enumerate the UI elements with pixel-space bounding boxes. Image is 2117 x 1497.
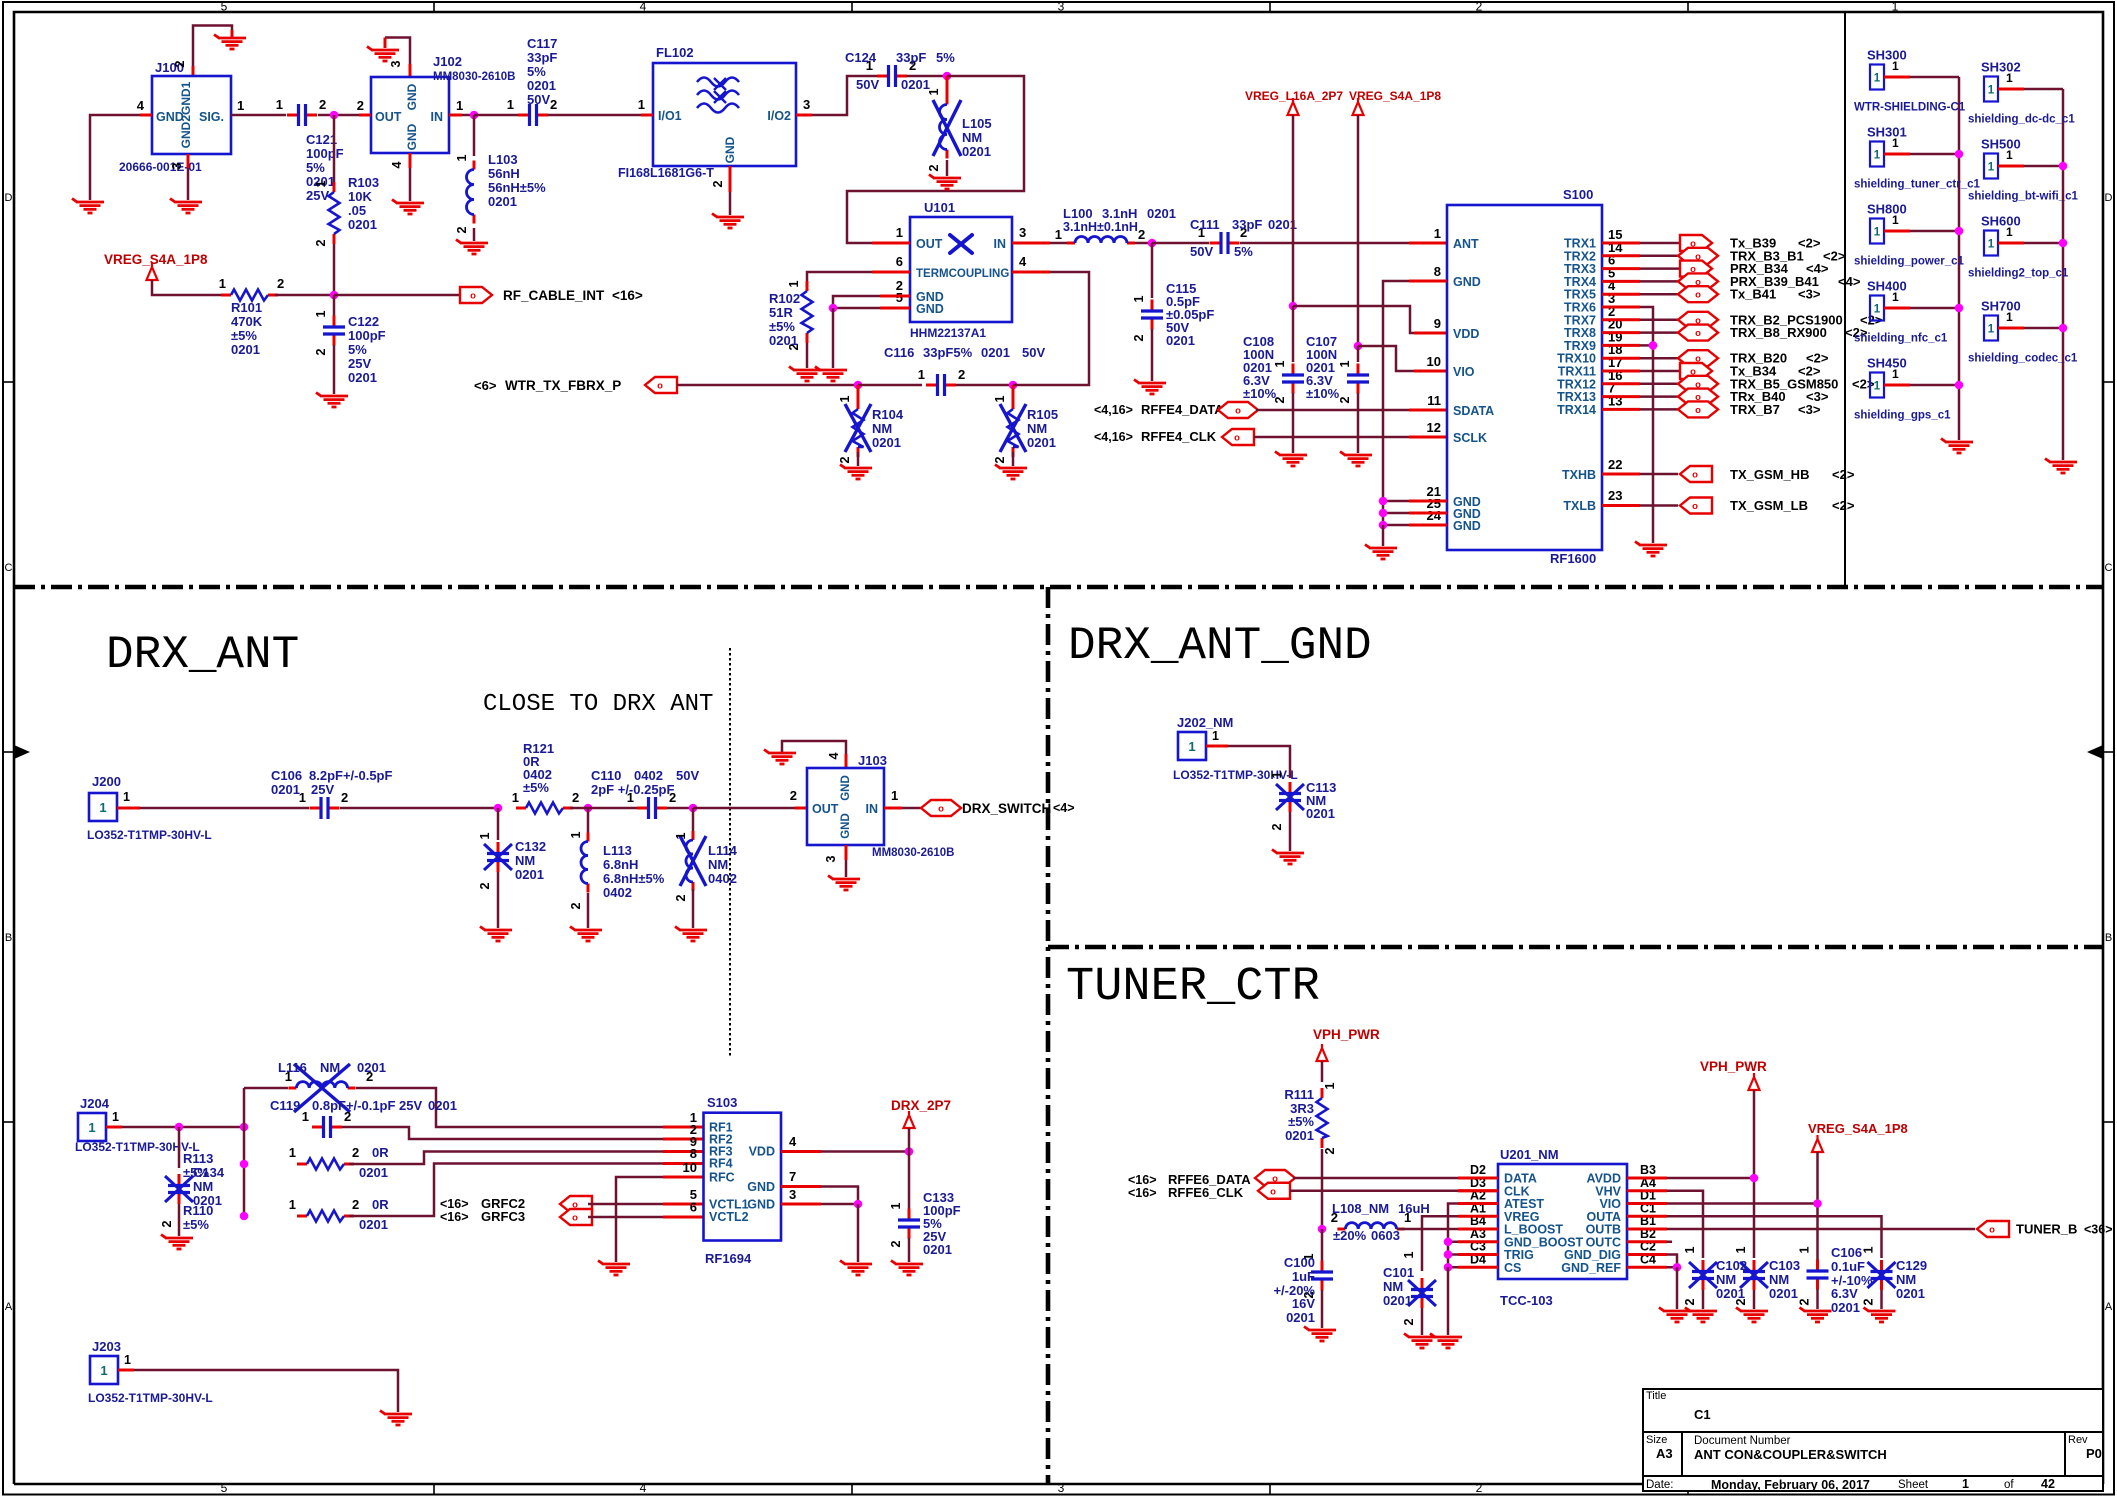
svg-text:1: 1 <box>1892 213 1899 227</box>
wire S103 GND7 to node <box>781 1185 821 1188</box>
svg-text:J102: J102 <box>433 54 462 69</box>
svg-text:C1: C1 <box>1694 1407 1711 1422</box>
svg-text:RFFE4_DATA: RFFE4_DATA <box>1141 402 1224 417</box>
svg-text:3: 3 <box>803 97 810 112</box>
wire C110 to node <box>667 807 693 810</box>
wire node to C111 <box>1152 242 1209 245</box>
svg-text:IN: IN <box>431 110 444 124</box>
wire VPH_PWR to AVDD node <box>1753 1090 1756 1258</box>
off-page connector Tx_B34 <box>1680 363 1712 379</box>
svg-text:NM: NM <box>1769 1272 1789 1287</box>
svg-text:1: 1 <box>1338 360 1352 367</box>
inductor L116 (NM) <box>288 1087 296 1090</box>
wire WTR bus <box>677 384 858 387</box>
svg-text:6: 6 <box>896 254 903 269</box>
svg-text:50V: 50V <box>676 768 699 783</box>
wire C108 branch <box>1292 306 1295 362</box>
svg-text:±5%: ±5% <box>231 328 257 343</box>
U101 OUT stub <box>872 242 910 245</box>
svg-text:1: 1 <box>1874 381 1881 393</box>
svg-text:0201: 0201 <box>1769 1286 1798 1301</box>
svg-text:0201: 0201 <box>231 342 260 357</box>
ground (L114) <box>675 927 707 942</box>
junction node C108/VDD <box>1289 302 1298 311</box>
wire TRX1 to connector <box>1602 242 1640 245</box>
junction node J102/L103/C117 <box>470 111 479 120</box>
connector J102 <box>371 77 449 153</box>
J102 pin2 stub <box>359 114 371 117</box>
FL102 pin1 stub <box>641 114 653 117</box>
wire VREG to R101 <box>152 280 222 295</box>
wire TRX12 to connector <box>1602 382 1640 385</box>
wire node to VDD pin <box>1293 306 1414 333</box>
ground (J203) <box>380 1411 412 1426</box>
wire SH302 to bus <box>1998 88 2024 91</box>
connector J204 <box>78 1113 106 1141</box>
svg-text:2: 2 <box>1683 1298 1697 1305</box>
U101 coupler glyph <box>950 235 972 253</box>
svg-text:VPH_PWR: VPH_PWR <box>1700 1059 1767 1074</box>
junction TRX9 bus <box>1649 341 1658 350</box>
svg-text:2: 2 <box>1798 1298 1812 1305</box>
wire OUTB to TUNER_B <box>1667 1228 1975 1231</box>
svg-text:0603: 0603 <box>1371 1228 1400 1243</box>
ground (C113) <box>1272 850 1304 865</box>
coupler U101 <box>910 217 1012 322</box>
capacitor C102 (NM) <box>1702 1260 1705 1271</box>
wire C107 to ground <box>1357 393 1360 453</box>
title block <box>1643 1389 2103 1491</box>
wire J204 to bus <box>106 1126 122 1129</box>
wire node to C117 <box>474 114 518 117</box>
ground (C103) <box>1736 1308 1768 1323</box>
wire J200 to C106 <box>117 807 140 810</box>
svg-text:1: 1 <box>838 395 852 402</box>
svg-text:±10%: ±10% <box>1306 386 1340 401</box>
svg-text:5%: 5% <box>306 160 325 175</box>
wire TRX8 to connector <box>1602 331 1640 334</box>
svg-text:4: 4 <box>137 98 145 113</box>
svg-text:1: 1 <box>1892 0 1899 14</box>
off-page connector TRX_B5_GSM850 <box>1678 376 1718 392</box>
ground (L103) <box>456 240 488 255</box>
svg-text:2: 2 <box>711 180 725 187</box>
inductor L113 <box>587 833 590 842</box>
svg-text:Sheet: Sheet <box>1898 1479 1929 1491</box>
wire AVDD to node <box>1667 1177 1754 1180</box>
svg-text:56nH±5%: 56nH±5% <box>488 180 546 195</box>
svg-text:0201: 0201 <box>962 144 991 159</box>
svg-text:2: 2 <box>838 456 852 463</box>
wire GRFC2 to VCTL1 <box>588 1203 663 1206</box>
junction SH500 <box>2059 162 2068 171</box>
svg-text:2: 2 <box>1402 1318 1416 1325</box>
svg-text:5: 5 <box>221 0 228 14</box>
svg-text:TERMCOUPLING: TERMCOUPLING <box>916 268 1009 280</box>
svg-text:2: 2 <box>1270 823 1284 830</box>
S100 GND24 wire <box>1409 524 1447 527</box>
svg-text:C103: C103 <box>1769 1258 1800 1273</box>
wire J100 pin4 to ground <box>140 114 152 117</box>
svg-text:TUNER_CTR: TUNER_CTR <box>1066 961 1320 1014</box>
svg-text:o: o <box>1235 406 1241 417</box>
svg-text:I/O1: I/O1 <box>658 109 682 123</box>
wire R105 to ground <box>1012 452 1015 466</box>
junction SH600 <box>2059 239 2068 248</box>
svg-text:2: 2 <box>1476 0 1483 14</box>
svg-text:5%: 5% <box>527 64 546 79</box>
off-page connector TX_GSM_LB <box>1680 498 1712 514</box>
svg-text:0201: 0201 <box>1285 1128 1314 1143</box>
svg-text:3: 3 <box>824 855 838 862</box>
ground (U201 control) <box>1430 1334 1462 1349</box>
wire VDD to node <box>781 1150 821 1153</box>
svg-text:<16>: <16> <box>1128 1186 1157 1200</box>
capacitor C133 <box>908 1209 911 1220</box>
svg-text:16uH: 16uH <box>1398 1201 1430 1216</box>
svg-text:2: 2 <box>674 894 688 901</box>
junction AVDD/VPH_PWR <box>1750 1174 1759 1183</box>
wire R113 to RF3 <box>349 1152 663 1165</box>
svg-text:LO352-T1TMP-30HV-L: LO352-T1TMP-30HV-L <box>87 828 212 842</box>
wire J100 pin2 to ground <box>193 26 232 67</box>
svg-text:Tx_B41: Tx_B41 <box>1730 287 1776 302</box>
connector SH600 <box>1984 231 1998 256</box>
wire R104 to ground <box>857 452 860 466</box>
svg-text:o: o <box>572 1213 578 1224</box>
svg-text:10K: 10K <box>348 189 372 204</box>
svg-text:10: 10 <box>683 1160 697 1175</box>
svg-text:1: 1 <box>276 97 283 112</box>
U201 right stubs <box>1627 1177 1667 1180</box>
svg-text:1: 1 <box>124 1353 131 1367</box>
connector J200 <box>89 793 117 821</box>
svg-text:o: o <box>1695 405 1701 416</box>
svg-text:1: 1 <box>1988 85 1995 97</box>
capacitor C129 (NM) <box>1880 1260 1883 1271</box>
svg-text:1: 1 <box>993 395 1007 402</box>
svg-text:1: 1 <box>237 98 244 113</box>
svg-text:L116: L116 <box>278 1060 307 1075</box>
wire J100 pin1 to C121 <box>231 114 286 117</box>
ground (J103 pin4) <box>764 750 796 765</box>
resistor R110 <box>297 1215 307 1218</box>
svg-text:TRX_B8_RX900: TRX_B8_RX900 <box>1730 325 1827 340</box>
off-page connector Tx_B41 <box>1678 286 1718 302</box>
svg-text:ANT: ANT <box>1453 237 1479 251</box>
frame column ticks <box>433 2 435 12</box>
svg-text:B: B <box>5 932 12 944</box>
wire J203 to ground <box>118 1369 134 1372</box>
ground (FL102 pin2) <box>712 214 744 229</box>
svg-text:5: 5 <box>221 1481 228 1495</box>
svg-text:50V: 50V <box>1190 244 1213 259</box>
svg-text:0201: 0201 <box>348 217 377 232</box>
svg-text:R111: R111 <box>1284 1087 1314 1102</box>
wire L103 to ground <box>473 228 476 241</box>
wire RFFE4_CLK to SCLK <box>1254 436 1409 439</box>
junction SH800 <box>1955 227 1964 236</box>
svg-text:SH800: SH800 <box>1867 202 1907 217</box>
wire SH400 to bus <box>1884 307 1910 310</box>
svg-text:0201: 0201 <box>1166 333 1195 348</box>
wire L100 to node <box>1135 242 1152 245</box>
wire SH500 to bus <box>1998 165 2024 168</box>
junction GND24 <box>1379 521 1388 530</box>
connector SH450 <box>1870 373 1884 398</box>
svg-text:C106: C106 <box>271 768 302 783</box>
wire R105 branch <box>1012 385 1015 402</box>
svg-text:0201: 0201 <box>1306 806 1335 821</box>
wire ground bus down <box>1447 1267 1450 1335</box>
junction node C107/VIO <box>1354 342 1363 351</box>
svg-text:NM: NM <box>1027 421 1047 436</box>
svg-text:DRX_2P7: DRX_2P7 <box>891 1098 951 1113</box>
svg-text:Date:: Date: <box>1646 1479 1674 1491</box>
svg-text:±5%: ±5% <box>523 780 549 795</box>
resistor R105 (NM) <box>1012 399 1015 409</box>
svg-text:C102: C102 <box>1716 1258 1747 1273</box>
svg-text:51R: 51R <box>769 305 793 320</box>
resistor R121 <box>516 807 526 810</box>
wire C129 to ground <box>1880 1290 1883 1309</box>
junction S103 GND <box>854 1200 863 1209</box>
svg-text:±5%: ±5% <box>183 1217 209 1232</box>
ground (R102) <box>789 367 821 382</box>
svg-text:3.1nH±0.1nH: 3.1nH±0.1nH <box>1063 220 1138 234</box>
capacitor C103 (NM) <box>1753 1260 1756 1271</box>
resistor R102 <box>806 281 809 291</box>
svg-text:1: 1 <box>638 97 645 112</box>
svg-text:C122: C122 <box>348 314 379 329</box>
inductor L103 <box>473 161 476 170</box>
svg-text:o: o <box>938 804 944 815</box>
svg-text:1: 1 <box>889 1202 903 1209</box>
svg-text:<3>: <3> <box>1798 287 1821 302</box>
svg-text:1: 1 <box>1862 1246 1876 1253</box>
junction SH450 <box>1955 381 1964 390</box>
off-page connector TRX_B20 <box>1678 350 1718 366</box>
svg-text:7: 7 <box>789 1169 796 1184</box>
svg-text:RF4: RF4 <box>709 1157 733 1171</box>
svg-text:470K: 470K <box>231 314 263 329</box>
svg-text:Size: Size <box>1646 1434 1667 1446</box>
svg-text:1: 1 <box>1874 150 1881 162</box>
wire L113 branch <box>587 808 590 833</box>
svg-text:IN: IN <box>994 237 1007 251</box>
svg-text:<2>: <2> <box>1832 498 1855 513</box>
svg-text:2: 2 <box>1862 1298 1876 1305</box>
svg-text:25V: 25V <box>306 188 329 203</box>
wire U101 IN to L100 <box>1012 242 1050 245</box>
wire C133 to ground <box>908 1238 911 1262</box>
wire SH300 to bus <box>1884 76 1910 79</box>
off-page connector TRx_B40 <box>1678 389 1718 405</box>
ground (shield bus 1) <box>1941 439 1973 454</box>
svg-text:1: 1 <box>456 98 463 113</box>
svg-text:B: B <box>2105 932 2112 944</box>
svg-text:C121: C121 <box>306 132 337 147</box>
svg-text:3: 3 <box>1058 1481 1065 1495</box>
off-page connector TRX_B7 <box>1678 401 1718 417</box>
wire J202 to C113 <box>1206 745 1228 748</box>
wire VIO to node <box>1667 1202 1818 1205</box>
svg-text:C101: C101 <box>1383 1265 1414 1280</box>
svg-text:1: 1 <box>289 1197 296 1212</box>
wire C107 branch <box>1357 346 1360 362</box>
svg-text:shielding_tuner_ctr_c1: shielding_tuner_ctr_c1 <box>1854 179 1981 191</box>
wire node to J103 <box>693 807 795 810</box>
svg-text:2: 2 <box>319 97 326 112</box>
svg-text:11: 11 <box>1427 393 1441 408</box>
svg-text:2: 2 <box>173 60 187 67</box>
svg-text:1: 1 <box>1798 1246 1812 1253</box>
svg-text:RF1694: RF1694 <box>705 1251 752 1266</box>
svg-text:4: 4 <box>827 752 841 759</box>
wire GND_REF to ground <box>1676 1267 1679 1309</box>
svg-text:1: 1 <box>1212 729 1219 743</box>
svg-text:0402: 0402 <box>708 871 737 886</box>
svg-text:VREG_S4A_1P8: VREG_S4A_1P8 <box>104 252 208 267</box>
svg-text:C119: C119 <box>270 1098 300 1113</box>
svg-text:33pF5%: 33pF5% <box>923 345 973 360</box>
connector SH500 <box>1984 154 1998 179</box>
ground (C107) <box>1340 452 1372 467</box>
svg-text:3: 3 <box>789 1187 796 1202</box>
svg-text:1: 1 <box>219 276 226 291</box>
svg-text:RF1600: RF1600 <box>1550 551 1596 566</box>
svg-text:<4,16>: <4,16> <box>1094 430 1133 444</box>
svg-text:1: 1 <box>314 180 328 187</box>
svg-text:2: 2 <box>1132 334 1146 341</box>
wire FL102 pin2 to ground <box>729 166 732 192</box>
junction VDD/DRX_2P7 <box>905 1147 914 1156</box>
svg-text:CLOSE TO DRX ANT: CLOSE TO DRX ANT <box>483 691 713 718</box>
svg-text:GND: GND <box>747 1198 775 1212</box>
svg-text:2: 2 <box>160 1220 174 1227</box>
svg-text:1: 1 <box>2006 225 2013 239</box>
junction GND_BOOST <box>1448 1241 1458 1244</box>
svg-text:1: 1 <box>507 97 514 112</box>
svg-text:1: 1 <box>1273 360 1287 367</box>
svg-text:0201: 0201 <box>872 435 901 450</box>
svg-text:2: 2 <box>455 226 469 233</box>
ground (L105) <box>929 175 961 190</box>
wire loop to U101 OUT <box>847 76 1024 243</box>
inductor L114 (NM) <box>692 831 695 840</box>
svg-text:RFFE6_CLK: RFFE6_CLK <box>1168 1185 1244 1200</box>
svg-text:NM: NM <box>1383 1279 1403 1294</box>
capacitor C108 <box>1292 364 1295 375</box>
svg-text:GND: GND <box>405 83 419 110</box>
svg-text:2pF +/-0.25pF: 2pF +/-0.25pF <box>591 782 674 797</box>
svg-text:ANT CON&COUPLER&SWITCH: ANT CON&COUPLER&SWITCH <box>1694 1447 1887 1462</box>
svg-text:SDATA: SDATA <box>1453 404 1494 418</box>
filter FL102 <box>653 63 796 166</box>
wire J103 pin1 to DRX_SWITCH <box>884 807 902 810</box>
svg-text:24: 24 <box>1427 508 1442 523</box>
svg-text:25V: 25V <box>311 782 334 797</box>
svg-text:16V: 16V <box>1292 1296 1315 1311</box>
capacitor C101 (NM) <box>1421 1278 1424 1289</box>
svg-text:4: 4 <box>640 1481 647 1495</box>
svg-text:OUT: OUT <box>375 110 402 124</box>
ground (C129) <box>1864 1308 1896 1323</box>
wire L114 to ground <box>692 889 695 928</box>
switch S103 <box>704 1113 782 1241</box>
junction node R101/C122 <box>330 291 339 300</box>
svg-text:.05: .05 <box>348 203 366 218</box>
svg-text:GRFC3: GRFC3 <box>481 1209 525 1224</box>
wire VREG_L16A to C108 <box>1292 115 1295 306</box>
section divider dash-dot horizontal 2 <box>1048 945 2103 950</box>
svg-text:4: 4 <box>1019 254 1027 269</box>
wire node to C116 <box>858 384 922 387</box>
svg-text:TCC-103: TCC-103 <box>1500 1293 1553 1308</box>
svg-text:9: 9 <box>1434 316 1441 331</box>
wire C115 to ground <box>1151 329 1154 381</box>
wire VREG_S4A to VIO node <box>1816 1152 1819 1261</box>
svg-text:L100: L100 <box>1063 206 1093 221</box>
svg-text:1: 1 <box>314 310 328 317</box>
svg-text:<16>: <16> <box>1128 1173 1157 1187</box>
svg-text:0201: 0201 <box>271 782 300 797</box>
shielding bus 1 <box>1958 77 1961 440</box>
wire C113 to ground <box>1289 812 1292 851</box>
ground (J100 pin4) <box>72 199 104 214</box>
wire node to VIO pin <box>1358 346 1414 371</box>
svg-text:1: 1 <box>569 831 583 838</box>
off-page connector TRX_B8_RX900 <box>1678 325 1718 341</box>
svg-text:0201: 0201 <box>488 194 517 209</box>
svg-text:0201: 0201 <box>1147 206 1176 221</box>
svg-text:1: 1 <box>2006 310 2013 324</box>
svg-text:5%: 5% <box>348 342 367 357</box>
wire U101 GND pins <box>880 295 910 298</box>
svg-text:8.2pF+/-0.5pF: 8.2pF+/-0.5pF <box>309 768 392 783</box>
ground (C115) <box>1134 380 1166 395</box>
svg-text:1: 1 <box>455 154 469 161</box>
wire FL102 pin3 to C124 <box>796 114 812 117</box>
svg-text:FI168L1681G6-T: FI168L1681G6-T <box>618 166 714 180</box>
svg-text:1: 1 <box>1683 1246 1697 1253</box>
wire R110 to RF4 <box>349 1164 663 1217</box>
junction GND_REF <box>1673 1263 1682 1272</box>
junction VIO/VREG_S4A <box>1813 1199 1822 1208</box>
svg-text:1: 1 <box>1892 59 1899 73</box>
svg-text:S103: S103 <box>707 1095 737 1110</box>
svg-text:<16>: <16> <box>440 1197 469 1211</box>
svg-text:SH400: SH400 <box>1867 279 1907 294</box>
wire SH700 to bus <box>1998 327 2024 330</box>
svg-text:<36>: <36> <box>2084 1223 2113 1237</box>
capacitor C117 <box>518 114 529 117</box>
capacitor C121 <box>287 114 298 117</box>
svg-text:5%: 5% <box>1234 244 1253 259</box>
svg-text:<2>: <2> <box>1852 376 1875 391</box>
wire S103 GND3 to node <box>781 1203 821 1206</box>
svg-text:shielding_gps_c1: shielding_gps_c1 <box>1854 410 1951 422</box>
ground (R104) <box>840 465 872 480</box>
svg-text:C117: C117 <box>527 36 557 51</box>
svg-text:MM8030-2610B: MM8030-2610B <box>433 71 515 83</box>
svg-text:2: 2 <box>550 97 557 112</box>
svg-text:2: 2 <box>569 902 583 909</box>
junction GND21 <box>1379 497 1388 506</box>
svg-text:RF_CABLE_INT: RF_CABLE_INT <box>503 288 605 303</box>
svg-text:RFC: RFC <box>709 1171 735 1185</box>
junction SH700 <box>2059 324 2068 333</box>
